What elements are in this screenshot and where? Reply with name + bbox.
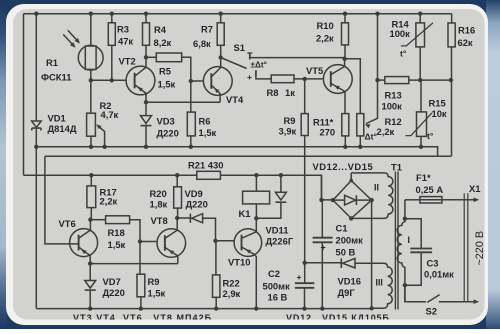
- svg-text:VD3: VD3: [157, 116, 175, 127]
- wire lower feed line y175 right segment (R21 to bridge +): [220, 175, 333, 200]
- svg-text:±Δt°: ±Δt°: [251, 61, 267, 70]
- node dot bridge minus at ground rail: [370, 306, 374, 310]
- resistor R8 body: [271, 75, 294, 83]
- wire C1 top column: [321, 200, 323, 238]
- connector X1 bottom arrowhead: [474, 299, 480, 304]
- wire VD1 branch / left ground column: [35, 14, 37, 121]
- variable arrow R2 wiper: [98, 125, 105, 146]
- svg-text:3,9к: 3,9к: [279, 126, 297, 137]
- svg-text:10к: 10к: [432, 108, 447, 119]
- svg-text:1,5к: 1,5к: [199, 127, 217, 138]
- svg-text:VD12...VD15: VD12...VD15: [313, 161, 374, 172]
- svg-text:2,9к: 2,9к: [223, 288, 241, 299]
- wire R9 upper top stub: [304, 79, 306, 114]
- svg-text:VT5: VT5: [306, 65, 323, 76]
- switch S1 upper throw wire to VT5 collector node: [250, 57, 345, 59]
- transistor VT4 collector wire: [211, 58, 220, 77]
- node dot VD7 bottom rail: [88, 306, 92, 310]
- node dot R17/R18/VT6 collector: [88, 218, 92, 222]
- wire primary to S2: [405, 285, 426, 302]
- wire R22 top stub: [215, 241, 217, 275]
- svg-text:R20: R20: [150, 188, 167, 199]
- transistor VT5 circle: [323, 65, 352, 94]
- transistor VT8 base bar: [164, 235, 166, 251]
- node dot K1 top: [254, 173, 258, 177]
- svg-text:VT8: VT8: [151, 215, 168, 226]
- svg-text:VD7: VD7: [103, 276, 121, 287]
- transistor VT8 emitter wire: [165, 247, 178, 263]
- svg-text:VD11: VD11: [266, 225, 289, 236]
- wire VT2 base line: [91, 79, 135, 81]
- node dot R10 top rail: [343, 12, 347, 16]
- transistor VT2 circle: [126, 66, 155, 95]
- resistor R17 body: [87, 186, 96, 208]
- node dot R14 top rail: [418, 12, 422, 16]
- svg-text:R6: R6: [199, 116, 211, 127]
- transistor VT2 emitter wire: [135, 85, 146, 103]
- svg-text:Δt°: Δt°: [365, 132, 378, 142]
- wire R5 right to VT4 base node: [182, 57, 191, 81]
- label S1 minus: [247, 52, 252, 54]
- switch S1 blade: [221, 58, 247, 69]
- wire R7 top stub: [220, 14, 222, 23]
- wire C3 bottom link: [405, 252, 421, 285]
- wire VT2/VT4 emitter link y102: [146, 101, 220, 103]
- right page edge strip: [486, 0, 500, 329]
- resistor R7 body: [217, 23, 224, 46]
- transistor VT10 emitter arrow: [245, 247, 251, 253]
- svg-text:Д220: Д220: [157, 128, 179, 139]
- node dot bridge bottom corner: [349, 216, 353, 220]
- wire C1 bottom to ground rail: [321, 242, 323, 308]
- wire R14 top stub: [419, 14, 421, 23]
- svg-text:2,2к: 2,2к: [377, 126, 395, 137]
- wire C3 top link: [405, 219, 421, 249]
- switch S2 blade: [427, 295, 439, 303]
- transistor VT10 circle: [234, 229, 262, 257]
- wire R10 bottom to VT5 collector node: [344, 45, 346, 59]
- svg-text:Д9Г: Д9Г: [338, 287, 356, 298]
- diode VD3 symbol: [141, 116, 152, 124]
- node dot C2 bottom rail: [302, 306, 306, 310]
- transistor VT10 emitter wire: [242, 247, 257, 309]
- node dot R3 top rail: [110, 12, 114, 16]
- thermistor R14 body: [416, 23, 425, 47]
- svg-text:R3: R3: [117, 24, 129, 35]
- thermistor R15 body: [417, 112, 427, 136]
- capacitor C2 plates: [295, 283, 314, 288]
- svg-text:C1: C1: [336, 223, 348, 234]
- wire R8 right to VT5 base: [294, 78, 331, 80]
- transistor VT5 base bar: [330, 71, 332, 87]
- node dot VT4 collector / S1 common: [219, 55, 223, 59]
- svg-text:VT4: VT4: [226, 94, 244, 105]
- transistor VT10 base bar: [241, 235, 243, 251]
- transistor VT4 base bar: [210, 73, 212, 89]
- diode VD16 triangle: [343, 258, 355, 268]
- svg-text:16 В: 16 В: [268, 292, 288, 303]
- resistor R10 body: [342, 23, 349, 45]
- node dot VT10 base / R22: [213, 239, 217, 243]
- svg-text:R13: R13: [385, 90, 402, 101]
- node dot K1 bottom / VT10 collector: [254, 216, 258, 220]
- wire R13 left stub: [378, 79, 385, 81]
- wire R17 bottom to VT6 collector node: [90, 208, 92, 220]
- wire R16 bottom down to sense line: [451, 47, 453, 156]
- node dot R7 top rail: [219, 12, 223, 16]
- wire fuse line left: [405, 199, 420, 201]
- svg-text:R7: R7: [201, 24, 213, 35]
- svg-text:100к: 100к: [390, 28, 411, 39]
- resistor R11 body: [342, 114, 349, 136]
- photoresistor R1 inner box: [85, 46, 96, 69]
- wire R7 bottom to VT4 collector node: [220, 45, 222, 57]
- transistor VT8 circle: [157, 229, 186, 258]
- node dot R17 top: [89, 173, 93, 177]
- svg-text:4,7к: 4,7к: [101, 109, 119, 120]
- resistor R22 body: [213, 275, 220, 297]
- wire R1 bottom to base node: [90, 69, 92, 80]
- zener diode VD1 symbol: [32, 121, 42, 127]
- switch S1 lower contact tick: [255, 70, 257, 76]
- svg-text:S1: S1: [234, 42, 245, 53]
- svg-text:8,2к: 8,2к: [154, 37, 172, 48]
- diode VD7 symbol: [85, 281, 96, 289]
- node dot C3 bottom at primary column: [403, 283, 407, 287]
- svg-text:R9: R9: [284, 115, 296, 126]
- svg-text:Д220: Д220: [186, 199, 208, 210]
- svg-text:K1: K1: [239, 208, 251, 219]
- wire R2 bottom to rail: [90, 136, 92, 147]
- svg-text:R22: R22: [223, 278, 240, 289]
- transistor VT6 emitter arrow: [80, 248, 86, 254]
- wire top supply rail: [24, 13, 452, 15]
- node dot C1 bottom rail: [320, 306, 324, 310]
- svg-text:2,2к: 2,2к: [316, 33, 334, 44]
- svg-text:VT6: VT6: [59, 218, 76, 229]
- node dot VD3 bottom rail: [144, 145, 148, 149]
- transistor VT6 circle: [70, 229, 98, 257]
- fuse F1 body: [420, 197, 442, 203]
- node dot R4 top rail: [144, 12, 148, 16]
- svg-text:VT10: VT10: [228, 257, 250, 268]
- wire VT10 base line: [216, 240, 242, 242]
- transistor VT5 emitter arrow: [333, 84, 339, 90]
- wire R20 top stub: [176, 175, 178, 187]
- capacitor C3 plates: [410, 249, 432, 253]
- svg-text:R16: R16: [458, 25, 475, 36]
- transistor VT6 base bar: [78, 235, 80, 251]
- svg-text:Д226Г: Д226Г: [266, 236, 294, 247]
- svg-text:F1*: F1*: [416, 172, 431, 183]
- node dot VD1 at mid rail: [34, 145, 38, 149]
- svg-text:VD9: VD9: [185, 188, 203, 199]
- svg-text:C3: C3: [427, 258, 439, 269]
- wire R4 top stub: [145, 14, 147, 23]
- transistor VT8 emitter arrow: [168, 248, 174, 254]
- svg-text:t°: t°: [427, 131, 434, 141]
- svg-text:R1: R1: [46, 57, 58, 68]
- svg-text:Д220: Д220: [103, 287, 125, 298]
- transistor VT2 emitter arrow: [136, 85, 143, 91]
- resistor R9 upper body: [301, 114, 308, 136]
- wire bottom ground rail: [36, 308, 371, 310]
- resistor R6 body: [187, 112, 195, 136]
- svg-text:R4: R4: [154, 24, 167, 35]
- switch S1 upper contact tick: [249, 54, 251, 60]
- svg-text:47к: 47к: [118, 36, 133, 47]
- transformer T1 core lines: [395, 172, 398, 310]
- wire R17 top stub: [90, 175, 92, 186]
- resistor R21 body: [197, 171, 221, 179]
- thermistor R15 diagonal: [406, 113, 432, 136]
- wire VD11 bottom to K1 bottom node: [256, 202, 281, 218]
- wire R9 upper bottom through rails to C2: [304, 136, 306, 263]
- wire R11 bottom to rail: [344, 136, 346, 147]
- wire R20 bottom to VT8 collector node: [177, 208, 179, 218]
- wire R3 top stub: [111, 14, 113, 23]
- node dot VD3 top emitter node: [144, 100, 148, 104]
- wire R15 bottom to rail: [420, 136, 422, 146]
- transistor VT4 emitter wire: [211, 85, 220, 102]
- resistor R13 body: [385, 77, 409, 84]
- bridge inner diode triangle: [345, 195, 356, 205]
- node dot C2/VD16 junction: [303, 261, 307, 265]
- wire R6 top from VT4 base node: [190, 81, 192, 112]
- node dot R2 wiper rail: [102, 145, 106, 149]
- node dot R6 bottom rail: [189, 145, 193, 149]
- transistor VT4 emitter arrow: [213, 86, 220, 92]
- wire C2 bottom to ground rail: [304, 288, 306, 309]
- wire bridge + riser to DC line: [321, 175, 323, 200]
- node dot VD11 top: [279, 173, 283, 177]
- photoresistor R1 circle: [78, 45, 103, 70]
- wire left rail down to lower feed line: [23, 14, 25, 176]
- wire R5 left: [146, 56, 156, 58]
- svg-text:62к: 62к: [458, 37, 473, 48]
- node dot R14/R15 junction: [418, 78, 422, 82]
- node dot VT2 collector / R5: [144, 55, 148, 59]
- svg-text:1,5к: 1,5к: [148, 288, 166, 299]
- wire bridge minus column to ground rail: [371, 200, 373, 309]
- wire R16 top from rail corner: [451, 14, 453, 23]
- node dot R20 top: [175, 173, 179, 177]
- node dot VT4 base / R6: [189, 79, 193, 83]
- wire VD11 top stub: [280, 175, 282, 192]
- svg-text:t°: t°: [400, 49, 407, 59]
- svg-text:100к: 100к: [382, 101, 403, 112]
- wire VD7 wires: [89, 264, 91, 309]
- node dot R13 left: [375, 78, 379, 82]
- left page edge strip: [0, 0, 7, 329]
- transistor VT2 collector wire: [135, 57, 146, 76]
- node dot bridge + node: [319, 198, 323, 202]
- wire K1 top stub: [255, 175, 257, 191]
- node dot VT5 collector: [342, 57, 346, 61]
- resistor R3 body: [108, 23, 115, 46]
- svg-text:0,01мк: 0,01мк: [424, 269, 454, 280]
- photoresistor R1 top wire: [90, 14, 92, 46]
- svg-text:R18: R18: [108, 227, 125, 238]
- transistor VT10 collector wire: [242, 218, 257, 238]
- svg-text:III: III: [376, 278, 383, 288]
- svg-text:T1: T1: [391, 162, 402, 173]
- svg-text:+: +: [247, 72, 252, 82]
- diode VD9 cathode bar: [189, 214, 191, 223]
- svg-text:~220 В: ~220 В: [474, 231, 486, 266]
- node dot VD1 top rail: [34, 12, 38, 16]
- wire R1 node down to R2: [90, 80, 92, 113]
- transistor VT4 circle: [203, 67, 232, 96]
- wire fuse to X1 arrow: [442, 199, 476, 201]
- wire R14 bottom to junction: [419, 47, 421, 80]
- bridge inner diode wires: [333, 199, 372, 201]
- wire VT6/VT8 emitter link: [90, 263, 178, 265]
- photoresistor R1 light arrow 2: [63, 35, 73, 46]
- wire sense line y156 (VT6 base feed to R15/R16): [45, 155, 452, 157]
- wire R18 left: [90, 219, 105, 221]
- transformer winding I: [397, 200, 405, 302]
- diode VD9 wire left: [177, 217, 191, 219]
- wire R22 bottom to rail: [215, 297, 217, 308]
- capacitor C1 plates: [313, 238, 333, 243]
- node dot bridge right corner: [369, 198, 373, 202]
- node dot C3 top at primary column: [403, 217, 407, 221]
- svg-text:ФСК11: ФСК11: [41, 72, 71, 83]
- fuse F1 through line: [420, 199, 442, 201]
- wire VT5 collector node to R12: [345, 59, 361, 114]
- resistor R20 body: [174, 187, 182, 208]
- transformer winding III: [305, 262, 341, 264]
- relay K1 coil box: [243, 191, 270, 204]
- wire bridge top to winding II top: [350, 173, 352, 181]
- resistor R16 body: [448, 23, 455, 47]
- svg-text:II: II: [374, 183, 379, 193]
- wire R6 bottom to rail: [190, 136, 192, 147]
- svg-text:R21 430: R21 430: [188, 160, 223, 171]
- diode VD16 cathode bar: [340, 258, 342, 268]
- svg-text:R15: R15: [429, 98, 446, 109]
- node dot VT8 base / R9 lower: [138, 239, 142, 243]
- wire K1 bottom to VT10 collector: [255, 204, 257, 218]
- diode VD9 triangle: [192, 214, 203, 223]
- svg-text:1,8к: 1,8к: [150, 199, 168, 210]
- transistor VT6 emitter wire: [79, 247, 91, 264]
- wire R15 top stub: [420, 80, 422, 112]
- svg-text:6,8к: 6,8к: [193, 38, 211, 49]
- wire upper-section bottom rail y146.8: [36, 147, 437, 156]
- wire dt column from top rail: [377, 14, 379, 80]
- svg-text:500мк: 500мк: [263, 281, 291, 292]
- resistor R5 body: [156, 53, 181, 62]
- switch S1 lower throw wire to R8: [256, 77, 271, 79]
- svg-text:R5: R5: [159, 66, 171, 77]
- wire R10 top stub: [344, 14, 346, 23]
- svg-text:200мк: 200мк: [336, 235, 364, 246]
- svg-text:Д814Д: Д814Д: [48, 123, 77, 134]
- node dot dt column top rail: [375, 12, 379, 16]
- diode VD11 triangle: [275, 192, 286, 200]
- connector X1 bracket lines: [464, 193, 468, 302]
- node dot R11 bottom rail: [343, 145, 347, 149]
- node dot bridge left corner: [331, 198, 335, 202]
- svg-text:I: I: [408, 235, 410, 245]
- thermistor R14 diagonal: [401, 23, 433, 46]
- node dot R1/R2/VT2 base: [89, 78, 93, 82]
- node dot R3 bottom at base line: [110, 78, 114, 82]
- resistor R12 body: [357, 114, 364, 136]
- node dot R15 bottom rail: [419, 145, 423, 149]
- transistor VT5 collector wire: [331, 59, 345, 75]
- wire VT6 base feed from sense line: [45, 156, 79, 244]
- resistor R2 body: [87, 113, 96, 136]
- photoresistor R1 light arrow 1: [68, 30, 78, 41]
- transistor VT6 collector wire: [79, 220, 91, 239]
- wire C2 top from junction: [304, 263, 306, 283]
- wire VD3 to rail: [145, 102, 147, 147]
- transistor VT8 collector wire: [165, 218, 177, 238]
- diode VD16 wire to winding III: [355, 263, 392, 308]
- diode VD11 cathode bar: [275, 201, 286, 203]
- svg-text:+: +: [321, 243, 326, 253]
- connector X1 top arrowhead: [474, 197, 480, 202]
- transistor VT2 base bar: [134, 73, 136, 89]
- transformer winding II: [351, 173, 393, 219]
- svg-text:S2: S2: [426, 306, 437, 317]
- transistor VT5 emitter wire: [331, 83, 345, 113]
- svg-text:1,5к: 1,5к: [158, 79, 176, 90]
- svg-text:270: 270: [320, 127, 336, 138]
- svg-text:VD16: VD16: [338, 276, 361, 287]
- wire R18 right to VT8 base node: [130, 220, 165, 242]
- node dot R1 top rail: [89, 12, 93, 16]
- node dot bridge top corner: [349, 179, 353, 183]
- svg-text:R9: R9: [148, 276, 160, 287]
- wire VT4 base line: [191, 80, 212, 82]
- node dot R12 bottom rail: [358, 145, 362, 149]
- wire R9 lower top stub: [139, 242, 141, 275]
- node dot VT10 emitter rail: [254, 306, 258, 310]
- svg-text:2,2к: 2,2к: [100, 196, 118, 207]
- svg-text:X1: X1: [469, 183, 480, 194]
- wire R3 bottom to VT2 base node: [111, 45, 113, 80]
- node dot VD7 top: [88, 261, 92, 265]
- svg-text:+: +: [297, 272, 302, 282]
- svg-text:VT2: VT2: [119, 56, 136, 67]
- node dot VT8 collector / VD9: [175, 216, 179, 220]
- node dot R9 lower bottom rail: [139, 306, 143, 310]
- node dot R8/R9 upper: [303, 77, 307, 81]
- diode VD9 wire right to VT10 base column: [203, 218, 216, 241]
- svg-text:R10: R10: [317, 20, 334, 31]
- wire R12 bottom to rail: [359, 136, 361, 147]
- wire lower feed line y175 left segment (to R21): [24, 174, 197, 176]
- wire S2 to X1 arrow: [439, 301, 476, 303]
- svg-text:50 В: 50 В: [336, 247, 356, 258]
- variable arrow R12 wiper from dt line: [366, 80, 377, 124]
- wire R4 bottom to VT2 collector node: [145, 45, 147, 57]
- svg-text:C2: C2: [268, 268, 280, 279]
- wire R13 right to R14/R15 node: [409, 79, 451, 81]
- node dot R16 bottom junction: [449, 78, 453, 82]
- svg-text:0,25 А: 0,25 А: [416, 184, 444, 195]
- node dot R22 bottom rail: [214, 306, 218, 310]
- resistor R4 body: [143, 23, 150, 46]
- wire R9 lower bottom to rail: [140, 297, 142, 309]
- node dot R2 bottom rail: [89, 145, 93, 149]
- svg-text:1к: 1к: [285, 87, 295, 98]
- resistor R9 lower body: [137, 274, 145, 297]
